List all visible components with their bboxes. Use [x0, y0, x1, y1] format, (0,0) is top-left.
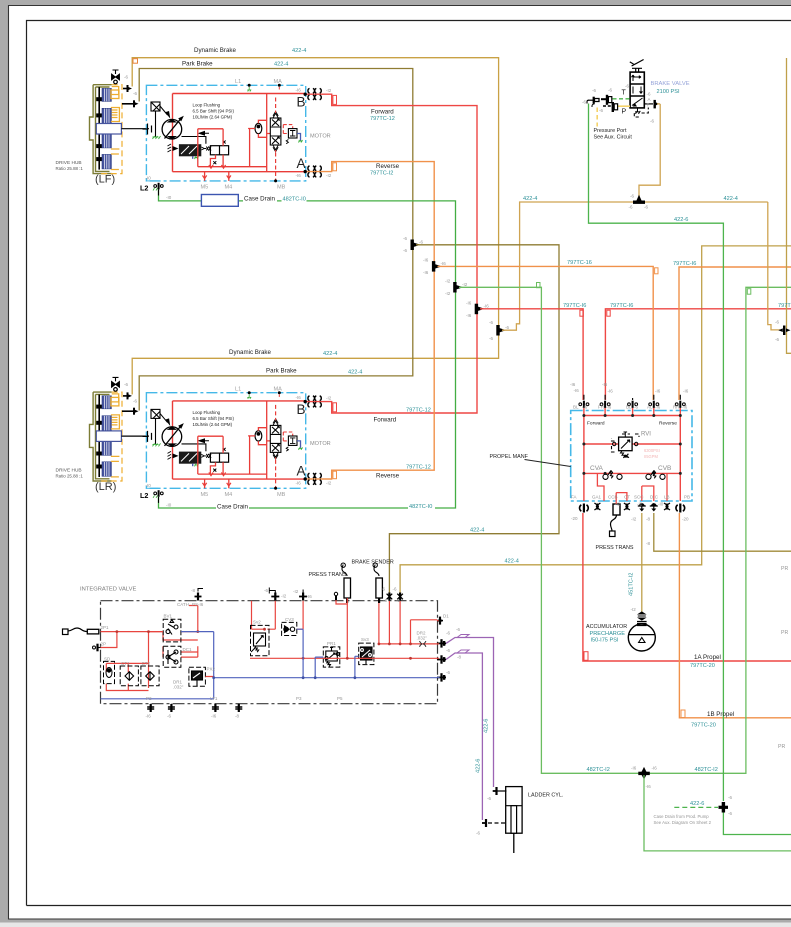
svg-text:-6: -6	[456, 627, 460, 632]
svg-text:INTEGRATED VALVE: INTEGRATED VALVE	[80, 587, 137, 593]
wire: 422-4 line integrated valve port to right edge via x701.7	[400, 246, 791, 594]
bottom port fitting	[482, 819, 505, 827]
svg-text:BRAKE VALVE: BRAKE VALVE	[651, 81, 690, 87]
svg-text:Pressure Port: Pressure Port	[594, 128, 627, 134]
svg-text:-6: -6	[264, 588, 268, 593]
svg-text:-6: -6	[650, 119, 654, 124]
svg-text:-I6: -I6	[582, 405, 588, 410]
corner hop notches	[133, 59, 751, 718]
svg-text:482TC-I0: 482TC-I0	[283, 197, 306, 203]
junction tee on dynamic-brake trunk at (498.6,330)	[497, 326, 505, 336]
svg-text:(LR): (LR)	[95, 481, 116, 493]
lever	[630, 60, 644, 73]
wire: orange 797TC-16 branch to manifold AL port	[438, 266, 654, 400]
svg-text:-6: -6	[403, 236, 407, 241]
svg-text:FA: FA	[571, 495, 577, 500]
svg-text:-I2: -I2	[445, 279, 451, 284]
svg-text:2P: 2P	[101, 642, 107, 647]
motor + hub block LR	[90, 377, 332, 507]
svg-text:-I6: -I6	[484, 304, 490, 309]
svg-text:PR: PR	[781, 566, 788, 572]
junction tee on park-brake trunk at (412.8,244.8)	[411, 240, 419, 250]
red net right	[149, 598, 438, 677]
svg-text:-6: -6	[592, 88, 596, 93]
svg-text:-6: -6	[599, 108, 603, 113]
svg-text:-I6: -I6	[682, 405, 688, 410]
svg-text:-I2: -I2	[293, 589, 299, 594]
propel manifold	[571, 395, 692, 537]
LF case drain filter	[201, 195, 238, 207]
svg-text:Case Drain: Case Drain	[217, 503, 249, 510]
P port yellow	[618, 105, 631, 107]
svg-text:LADDER CYL.: LADDER CYL.	[528, 793, 563, 799]
svg-text:ACCUMULATOR: ACCUMULATOR	[586, 624, 627, 630]
svg-text:-6: -6	[582, 100, 586, 105]
svg-text:A: A	[648, 97, 651, 102]
accumulator	[628, 612, 655, 651]
svg-text:-6: -6	[446, 631, 450, 636]
svg-text:T: T	[647, 103, 650, 108]
svg-text:2P1: 2P1	[101, 625, 110, 630]
wire: green 422-6 below port to right edge	[723, 812, 791, 835]
svg-text:-I6: -I6	[606, 405, 612, 410]
svg-text:CVA: CVA	[590, 465, 604, 472]
svg-text:.032": .032"	[173, 685, 184, 690]
junction tee on case drain trunk at (455.5,287.3)	[454, 283, 462, 293]
svg-text:P3: P3	[296, 696, 302, 701]
wire: 422-4 branch from tee to top horizontal run to right edge	[502, 202, 768, 330]
BV1 module	[163, 619, 181, 642]
svg-text:422-4: 422-4	[292, 48, 306, 54]
A port fitting and tan	[644, 103, 653, 105]
svg-text:-I2: -I2	[637, 502, 643, 507]
svg-text:BRAKE SENDER: BRAKE SENDER	[352, 560, 394, 566]
PX2 module	[189, 667, 206, 686]
wire: red 1A Propel 797TC-20	[583, 513, 791, 661]
svg-text:II5GPM: II5GPM	[644, 454, 658, 459]
svg-text:-I6: -I6	[441, 261, 447, 266]
RV1 relief valve	[612, 432, 640, 458]
CVA check	[603, 471, 622, 480]
svg-text:-6: -6	[487, 796, 491, 801]
svg-text:DC1: DC1	[183, 647, 192, 652]
svg-text:797TC-16: 797TC-16	[567, 260, 592, 266]
svg-text:D-C: D-C	[650, 495, 659, 500]
svg-text:-I6: -I6	[602, 382, 608, 387]
top ports	[579, 395, 685, 408]
svg-text:PRESS TRANS: PRESS TRANS	[309, 572, 347, 578]
svg-text:BL: BL	[626, 405, 632, 410]
svg-text:PROPEL MANF: PROPEL MANF	[490, 454, 529, 460]
svg-text:-I6: -I6	[655, 389, 661, 394]
svg-text:-I2: -I2	[631, 607, 637, 612]
svg-text:422-6: 422-6	[476, 759, 482, 773]
svg-text:Sv3: Sv3	[361, 637, 369, 642]
svg-text:-6: -6	[403, 248, 407, 253]
svg-text:-6: -6	[629, 205, 633, 210]
svg-text:Forward: Forward	[587, 421, 605, 427]
svg-text:-6: -6	[383, 598, 387, 603]
T port green dashed	[613, 98, 631, 100]
svg-text:See Aux. Circuit: See Aux. Circuit	[594, 135, 633, 141]
port fitting on 422-6 at (723,807)	[719, 803, 728, 813]
svg-text:LT1: LT1	[210, 696, 218, 701]
svg-text:-6: -6	[630, 194, 634, 199]
wire: green 422-6 brake valve to bottom port	[589, 104, 724, 802]
svg-text:-8: -8	[235, 714, 239, 719]
svg-text:797TC-I6: 797TC-I6	[673, 261, 696, 267]
svg-text:-6: -6	[608, 88, 612, 93]
svg-text:CVB: CVB	[658, 465, 671, 472]
svg-text:SCC: SCC	[634, 495, 644, 500]
svg-text:SD: SD	[104, 657, 111, 662]
PR1 module	[323, 647, 340, 667]
svg-text:-I6: -I6	[646, 784, 652, 789]
svg-text:-6: -6	[775, 320, 779, 325]
svg-text:Dynamic Brake: Dynamic Brake	[194, 47, 237, 54]
svg-text:-8: -8	[646, 541, 650, 546]
svg-text:797TC-12: 797TC-12	[370, 116, 395, 122]
svg-text:GA1: GA1	[592, 495, 602, 500]
svg-text:-6: -6	[505, 325, 509, 330]
svg-text:-I2: -I2	[281, 594, 287, 599]
svg-text:797TC-20: 797TC-20	[690, 663, 715, 669]
red rails and drops	[584, 408, 680, 501]
svg-text:-I6: -I6	[631, 766, 637, 771]
svg-text:797TC-12: 797TC-12	[406, 465, 431, 471]
svg-text:422-4: 422-4	[470, 528, 484, 534]
svg-text:Forward: Forward	[371, 109, 394, 116]
svg-text:451TC-I2: 451TC-I2	[629, 573, 635, 596]
svg-text:797TC-I6: 797TC-I6	[610, 303, 633, 309]
wire: green 482TC-12 loop to right edge	[459, 287, 791, 773]
svg-text:CT1: CT1	[121, 661, 130, 666]
svg-text:-I6: -I6	[683, 389, 689, 394]
svg-text:-6: -6	[634, 405, 638, 410]
svg-text:(LF): (LF)	[95, 174, 115, 186]
svg-text:Ratio 25.88 :1: Ratio 25.88 :1	[56, 166, 84, 171]
svg-text:-I2: -I2	[462, 282, 468, 287]
boundary dash-dot black	[101, 601, 438, 704]
wire: orange 797TC-16 manifold RR port to right edge	[679, 267, 791, 400]
svg-text:-I6: -I6	[652, 766, 658, 771]
wire: Reverse orange LF to LR trunk	[306, 162, 434, 479]
svg-text:P: P	[622, 109, 627, 116]
white underlays for on-line labels	[216, 194, 740, 773]
svg-text:PX2: PX2	[207, 667, 216, 672]
wire: red 797TC-16 manifold FR port to right edge	[605, 309, 791, 400]
junction tee brake valve drop onto 422-4 run at (639,202)	[634, 196, 645, 203]
hop flag on purple 2	[457, 650, 469, 653]
CV3 module	[282, 622, 297, 635]
svg-text:-I6: -I6	[466, 301, 472, 306]
svg-text:CV3: CV3	[285, 617, 294, 622]
svg-text:-6: -6	[489, 336, 493, 341]
svg-text:-20: -20	[571, 516, 578, 521]
svg-text:PS-I6: PS-I6	[192, 602, 204, 607]
svg-text:-I6: -I6	[570, 382, 576, 387]
svg-text:LB: LB	[664, 495, 670, 500]
wire: 451TC-12 tan drop to accumulator	[641, 513, 643, 612]
svg-text:422-6: 422-6	[690, 801, 704, 807]
svg-text:See Aux. Diagram On Sheet 2: See Aux. Diagram On Sheet 2	[654, 820, 712, 825]
svg-text:2100 PSI: 2100 PSI	[657, 89, 680, 95]
svg-text:Forward: Forward	[374, 417, 397, 424]
svg-text:-6: -6	[728, 811, 732, 816]
motor + hub block LF	[90, 70, 332, 200]
svg-text:797TC-I2: 797TC-I2	[370, 171, 393, 177]
svg-text:Reverse: Reverse	[376, 473, 400, 480]
svg-text:Sv2: Sv2	[253, 620, 261, 625]
svg-text:PRECHARGE: PRECHARGE	[590, 631, 626, 637]
svg-text:-6: -6	[489, 320, 493, 325]
svg-text:-I6: -I6	[307, 594, 313, 599]
svg-text:-I2: -I2	[615, 502, 621, 507]
svg-text:482TC-I2: 482TC-I2	[695, 767, 718, 773]
svg-text:Case Drain from Prod. Pump: Case Drain from Prod. Pump	[654, 814, 710, 819]
svg-text:482TC-I2: 482TC-I2	[587, 767, 610, 773]
svg-text:-6: -6	[446, 648, 450, 653]
svg-text:-I2: -I2	[445, 291, 451, 296]
svg-text:422-6: 422-6	[674, 217, 688, 223]
DC1 module	[163, 646, 181, 667]
svg-text:-20: -20	[682, 517, 689, 522]
blue net	[101, 629, 438, 699]
svg-text:P2: P2	[146, 696, 152, 701]
right edge tan cluster	[768, 58, 791, 353]
svg-text:Reverse: Reverse	[659, 421, 677, 427]
wire: orange 1B Propel 797TC-20	[679, 513, 791, 718]
wire: Forward red LF to LR trunk	[306, 94, 477, 413]
pilot yellow dashed	[596, 108, 598, 127]
DR2 orifice	[420, 641, 426, 647]
wire: manifold -8 drain tan to right edge	[654, 513, 791, 551]
svg-text:PR1: PR1	[327, 641, 336, 646]
svg-text:422-4: 422-4	[523, 196, 537, 202]
svg-text:-I6: -I6	[655, 405, 661, 410]
svg-text:422-4: 422-4	[323, 351, 337, 357]
svg-text:Ratio 25.88 :1: Ratio 25.88 :1	[56, 473, 84, 478]
right edge ports	[437, 617, 443, 625]
svg-text:.032": .032"	[417, 636, 428, 641]
svg-text:T: T	[622, 90, 627, 97]
svg-text:-6: -6	[419, 240, 423, 245]
svg-text:6300PSI: 6300PSI	[644, 448, 660, 453]
svg-text:-I2: -I2	[631, 517, 637, 522]
boundary cyan	[571, 411, 692, 502]
svg-text:PR: PR	[781, 630, 788, 636]
svg-text:422-4: 422-4	[505, 558, 519, 564]
svg-text:PRESS TRANS: PRESS TRANS	[596, 545, 634, 551]
svg-text:-I6: -I6	[466, 313, 472, 318]
svg-text:-6: -6	[476, 831, 480, 836]
wire: purple 422-6 to ladder cyl top port	[446, 638, 494, 788]
svg-text:-8: -8	[457, 655, 461, 660]
valve body	[630, 72, 644, 108]
svg-text:CATH: CATH	[177, 602, 189, 607]
svg-text:-I0: -I0	[658, 502, 664, 507]
svg-text:BV1: BV1	[164, 614, 173, 619]
svg-text:-6: -6	[728, 795, 732, 800]
wire: red 797TC-16 branch to manifold BL port	[480, 309, 583, 400]
svg-text:-6: -6	[625, 84, 629, 89]
svg-text:PB: PB	[684, 495, 690, 500]
wire: green dashed 422-6 case drain from prod pump	[674, 806, 718, 808]
svg-text:AL: AL	[647, 405, 653, 410]
svg-text:Park Brake: Park Brake	[182, 61, 213, 68]
svg-text:-6: -6	[775, 337, 779, 342]
wire: green case drain branch down to bottom right edge	[644, 775, 791, 851]
brake valve assembly	[587, 60, 660, 127]
wire: Dynamic Brake LF/LR tan 422-4 trunk	[132, 58, 498, 395]
svg-text:482TC-I0: 482TC-I0	[409, 504, 432, 510]
svg-text:PR: PR	[778, 744, 785, 750]
svg-text:-I6: -I6	[608, 389, 614, 394]
left fitting to green	[588, 97, 599, 104]
svg-text:-I6: -I6	[423, 258, 429, 263]
tan ports x389 x400	[387, 593, 393, 601]
wire: brake valve A-port tan 422-4 drop	[639, 104, 660, 200]
integrated valve	[63, 563, 447, 927]
CVB check	[646, 471, 665, 480]
Sv3 module	[359, 643, 374, 665]
wire: Park Brake LF/LR olive trunk	[139, 69, 413, 411]
svg-text:797TC: 797TC	[778, 303, 791, 309]
svg-text:797TC-12: 797TC-12	[406, 408, 431, 414]
2P port fitting	[93, 644, 102, 652]
svg-text:CT: CT	[624, 495, 630, 500]
svg-text:-6: -6	[644, 205, 648, 210]
svg-text:Dynamic Brake: Dynamic Brake	[229, 349, 272, 356]
svg-text:RR: RR	[673, 405, 680, 410]
junction tee on 482TC-12 at (644,773.3)	[639, 768, 650, 779]
svg-text:Park Brake: Park Brake	[266, 368, 297, 375]
top ports row	[195, 588, 338, 601]
svg-text:-I6: -I6	[574, 388, 580, 393]
svg-text:-6: -6	[381, 587, 385, 592]
svg-text:422-4: 422-4	[274, 62, 288, 68]
T return symbol below	[634, 108, 648, 118]
junction tee on reverse trunk at (434.2,266.4)	[432, 262, 440, 272]
svg-text:RVI: RVI	[641, 432, 651, 438]
brake sender sensor at x379	[373, 563, 382, 603]
svg-text:1A Propel: 1A Propel	[694, 654, 721, 661]
bottom ports	[580, 503, 685, 513]
svg-text:422-4: 422-4	[724, 196, 738, 202]
external handle 2P1	[63, 628, 99, 635]
press trans below manifold	[610, 501, 621, 537]
svg-text:797TC-20: 797TC-20	[691, 723, 716, 729]
svg-text:FR: FR	[598, 405, 605, 410]
svg-text:422-6: 422-6	[484, 719, 490, 733]
red net left	[101, 601, 304, 691]
svg-text:-I6: -I6	[211, 714, 217, 719]
press trans sensor at x347	[341, 563, 350, 603]
svg-text:CT2: CT2	[142, 661, 151, 666]
junction tee on forward trunk at (477,309)	[475, 304, 483, 314]
junction dots red	[116, 628, 412, 660]
svg-text:-6: -6	[167, 714, 171, 719]
svg-text:D1: D1	[443, 614, 449, 619]
svg-text:I50-I75 PSI: I50-I75 PSI	[591, 637, 619, 643]
Sv2 relief module	[251, 625, 270, 655]
ladder cylinder	[482, 787, 522, 853]
svg-text:-8: -8	[191, 588, 195, 593]
svg-text:797TC-I6: 797TC-I6	[563, 303, 586, 309]
svg-text:-I6: -I6	[146, 714, 152, 719]
svg-text:Reverse: Reverse	[376, 163, 400, 170]
svg-text:-6: -6	[647, 92, 651, 97]
svg-text:-6: -6	[446, 670, 450, 675]
svg-text:BL: BL	[573, 405, 579, 410]
svg-text:-6: -6	[393, 587, 397, 592]
top port fitting	[493, 787, 507, 795]
svg-text:Case Drain: Case Drain	[244, 195, 276, 202]
svg-text:CCB: CCB	[608, 495, 618, 500]
wire: park brake branch to integrated valve port via x559	[389, 245, 559, 594]
hop flag on purple 1	[457, 635, 469, 638]
svg-text:-8: -8	[646, 517, 650, 522]
svg-text:-6: -6	[396, 598, 400, 603]
wire: purple 422-6 to ladder cyl bottom port	[446, 653, 482, 820]
svg-text:422-4: 422-4	[348, 370, 362, 376]
bottom ports	[147, 704, 301, 927]
svg-text:1B Propel: 1B Propel	[707, 711, 734, 718]
mid fittings	[601, 95, 618, 112]
svg-text:-I6: -I6	[423, 270, 429, 275]
svg-text:P5: P5	[337, 696, 343, 701]
wire: green case drain LF trunk	[159, 190, 456, 509]
CT1 CT2 SD check modules	[104, 661, 160, 685]
